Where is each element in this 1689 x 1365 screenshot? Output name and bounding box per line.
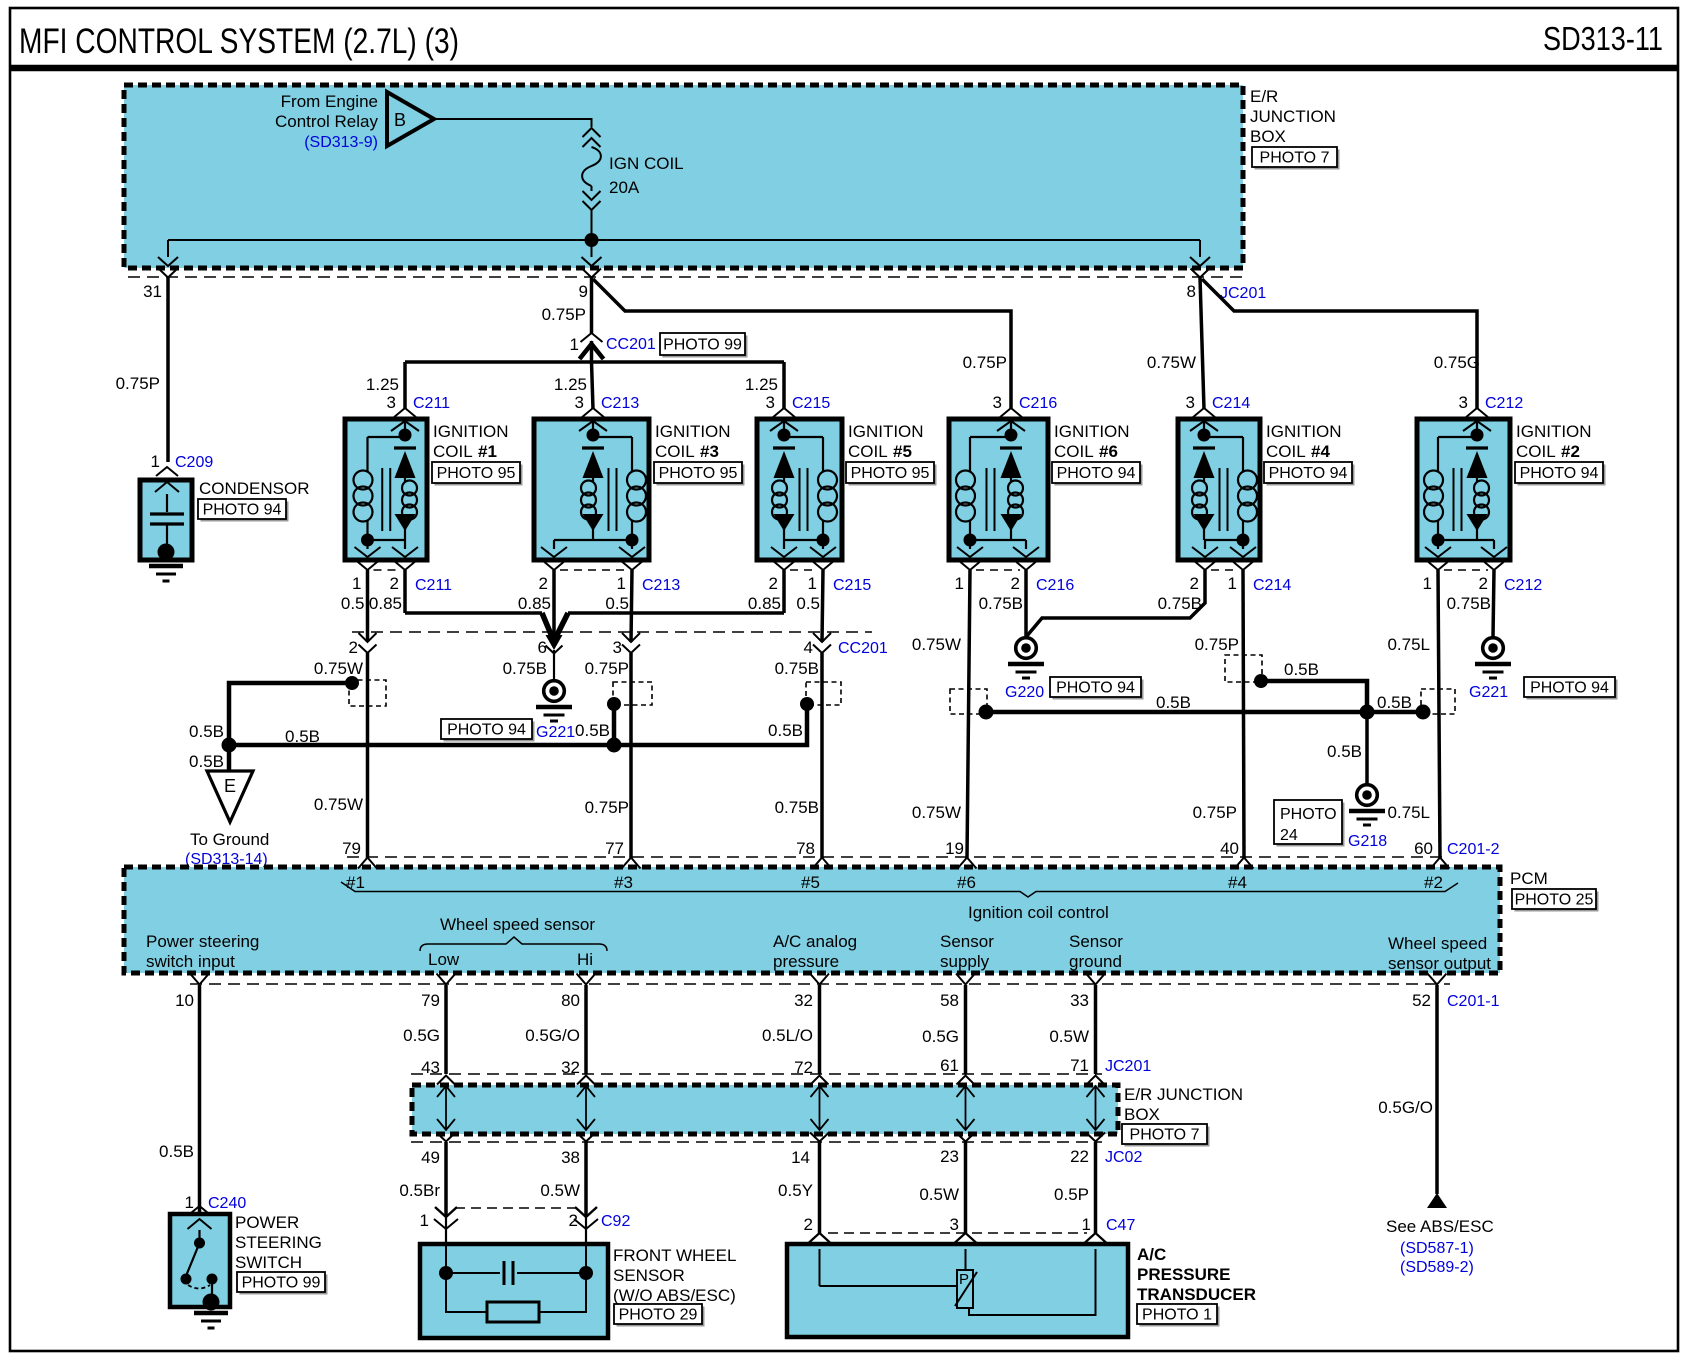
svg-text:STEERING: STEERING — [235, 1233, 322, 1252]
svg-text:PHOTO 99: PHOTO 99 — [242, 1275, 321, 1292]
switch internals — [181, 1219, 220, 1311]
svg-text:C47: C47 — [1106, 1217, 1135, 1234]
ignition coil #4 (C214) — [1158, 393, 1292, 613]
svg-text:Wheel speed sensor: Wheel speed sensor — [440, 915, 595, 934]
junction dot on bus — [607, 738, 622, 753]
svg-text:0.85: 0.85 — [369, 594, 402, 613]
sensor supply label — [940, 932, 994, 971]
svg-text:0.75B: 0.75B — [1158, 594, 1202, 613]
svg-text:20A: 20A — [609, 178, 640, 197]
ground symbol E (to ground SD313-14) — [207, 771, 253, 822]
pass-through arrows in box — [437, 1086, 1105, 1130]
svg-text:0.5L/O: 0.5L/O — [762, 1026, 813, 1045]
svg-text:0.75G: 0.75G — [1434, 353, 1480, 372]
svg-text:#1: #1 — [346, 873, 365, 892]
svg-text:C212: C212 — [1504, 577, 1542, 594]
svg-text:1: 1 — [955, 574, 964, 593]
svg-text:22: 22 — [1070, 1147, 1089, 1166]
svg-text:0.85: 0.85 — [748, 594, 781, 613]
svg-text:C216: C216 — [1019, 395, 1057, 412]
svg-text:2: 2 — [569, 1211, 578, 1230]
cylinder labels — [346, 873, 1443, 892]
svg-text:3: 3 — [387, 393, 396, 412]
wire 0.5P to C47-1 — [1054, 1142, 1095, 1233]
svg-text:C92: C92 — [601, 1213, 630, 1230]
svg-text:(SD313-9): (SD313-9) — [304, 134, 378, 151]
connector row JC02 — [411, 1141, 1102, 1143]
svg-text:#6: #6 — [1099, 442, 1118, 461]
svg-text:4: 4 — [804, 638, 813, 657]
svg-text:C213: C213 — [642, 577, 680, 594]
svg-text:PCM: PCM — [1510, 869, 1548, 888]
transducer internals — [820, 1249, 1096, 1315]
svg-text:PHOTO 94: PHOTO 94 — [1056, 680, 1135, 697]
svg-text:1: 1 — [185, 1193, 194, 1212]
wire 0.75P to PCM 77 — [585, 653, 631, 858]
svg-text:COIL: COIL — [433, 442, 473, 461]
PCM pins top chevrons — [358, 858, 1450, 869]
svg-text:PHOTO 95: PHOTO 95 — [659, 465, 738, 482]
svg-text:71: 71 — [1070, 1056, 1089, 1075]
svg-text:0.75W: 0.75W — [1147, 353, 1196, 372]
pin 8 JC201 — [1187, 257, 1210, 301]
PCM box — [124, 867, 1500, 973]
svg-text:0.5W: 0.5W — [1049, 1027, 1089, 1046]
E/R junction box row2 labels — [1124, 1085, 1243, 1124]
svg-text:3: 3 — [613, 638, 622, 657]
transducer labels — [1137, 1245, 1256, 1304]
wire 0.75L C212-1 to PCM 60 — [1387, 570, 1440, 858]
svg-text:2: 2 — [539, 574, 548, 593]
svg-text:CC201: CC201 — [606, 336, 656, 353]
E/R junction box label — [1250, 87, 1336, 146]
svg-text:0.75P: 0.75P — [542, 305, 586, 324]
connector row C201-1 (PCM bottom) — [190, 983, 1450, 985]
off-page arrow to ABS/ESC — [1427, 1193, 1447, 1208]
svg-text:PHOTO 94: PHOTO 94 — [1057, 465, 1136, 482]
svg-text:0.75W: 0.75W — [912, 803, 961, 822]
bus wire in junction box — [168, 239, 1200, 241]
wire 0.5G pin58 — [922, 985, 965, 1075]
photo 24 box — [1277, 803, 1345, 847]
svg-text:0.75B: 0.75B — [979, 594, 1023, 613]
ignition coil control brace — [341, 882, 1458, 897]
svg-text:From Engine: From Engine — [281, 92, 378, 111]
pin 31 JC201 — [143, 257, 178, 301]
photo 1 box (transducer) — [1140, 1307, 1220, 1327]
front wheel sensor box — [420, 1244, 608, 1338]
svg-text:G221: G221 — [536, 724, 575, 741]
svg-text:G220: G220 — [1005, 684, 1044, 701]
wire 0.5W to C47-3 — [919, 1142, 965, 1233]
svg-text:switch input: switch input — [146, 952, 235, 971]
svg-text:61: 61 — [940, 1056, 959, 1075]
svg-text:0.75L: 0.75L — [1387, 635, 1430, 654]
joint connector on 0.75P wire — [613, 682, 652, 705]
svg-text:78: 78 — [796, 839, 815, 858]
svg-text:Wheel speed: Wheel speed — [1388, 934, 1487, 953]
ignition coil #2 (C212) — [1417, 393, 1542, 613]
wire 0.85 C213-2 to bus — [552, 570, 556, 640]
svg-text:(SD587-1): (SD587-1) — [1400, 1240, 1474, 1257]
svg-text:Sensor: Sensor — [940, 932, 994, 951]
svg-text:1: 1 — [1082, 1215, 1091, 1234]
joint connector on 0.75W (right) — [950, 689, 987, 714]
svg-text:0.5G/O: 0.5G/O — [1378, 1098, 1433, 1117]
photo 25 box — [1515, 892, 1599, 912]
connector row CC201 — [352, 631, 872, 633]
joint connector on 0.75P (right) — [1225, 655, 1262, 682]
svg-text:8: 8 — [1187, 282, 1196, 301]
svg-text:C216: C216 — [1036, 577, 1074, 594]
svg-text:0.5G: 0.5G — [922, 1027, 959, 1046]
svg-text:PHOTO 94: PHOTO 94 — [1520, 465, 1599, 482]
svg-text:SWITCH: SWITCH — [235, 1253, 302, 1272]
svg-text:BOX: BOX — [1250, 127, 1286, 146]
connector C240 — [185, 1193, 247, 1215]
svg-text:2: 2 — [390, 574, 399, 593]
photo 7 box (top) — [1255, 150, 1340, 170]
svg-text:#4: #4 — [1311, 442, 1330, 461]
wire 0.5W pin33 — [1049, 985, 1095, 1075]
svg-text:Hi: Hi — [577, 950, 593, 969]
svg-text:0.5W: 0.5W — [919, 1185, 959, 1204]
wire 0.75B C214-2 to G220 — [1026, 570, 1205, 637]
sensor internals — [439, 1244, 593, 1322]
label from engine control relay — [275, 92, 378, 151]
svg-text:PRESSURE: PRESSURE — [1137, 1265, 1231, 1284]
svg-text:80: 80 — [561, 991, 580, 1010]
wire 0.75B C216-2 to G220 — [1024, 570, 1028, 637]
svg-text:IGNITION: IGNITION — [1266, 422, 1342, 441]
svg-text:0.5B: 0.5B — [1284, 660, 1319, 679]
photo 7 box (row2) — [1125, 1127, 1210, 1147]
wire 0.75P pin 9 to CC201 — [542, 278, 592, 334]
photo 94 box (coil 2) — [1518, 465, 1606, 486]
splice dot 0.75W joint — [345, 676, 359, 690]
A/C analog pressure label — [773, 932, 857, 971]
svg-text:3: 3 — [1186, 393, 1195, 412]
svg-text:Ignition coil control: Ignition coil control — [968, 903, 1109, 922]
splice dot 0.75B joint — [800, 697, 814, 711]
branch pin 8 to coil #2 (0.75G) — [1202, 279, 1480, 409]
svg-text:PHOTO: PHOTO — [1280, 806, 1337, 823]
joint connector on 0.75W wire — [349, 680, 386, 706]
0.5B branch wire — [1261, 660, 1367, 712]
svg-text:38: 38 — [561, 1148, 580, 1167]
svg-text:1: 1 — [352, 574, 361, 593]
svg-text:#4: #4 — [1228, 873, 1247, 892]
photo 94 box (G220) — [1053, 680, 1144, 700]
svg-text:2: 2 — [349, 638, 358, 657]
title bar rule — [10, 65, 1678, 72]
wire 0.5L/O pin32 — [762, 985, 820, 1077]
svg-text:Control Relay: Control Relay — [275, 112, 378, 131]
svg-text:C212: C212 — [1485, 395, 1523, 412]
svg-text:0.75P: 0.75P — [585, 798, 629, 817]
photo 29 box (sensor) — [617, 1307, 705, 1327]
svg-text:0.5: 0.5 — [341, 594, 365, 613]
svg-text:supply: supply — [940, 952, 990, 971]
svg-text:3: 3 — [1459, 393, 1468, 412]
svg-text:C214: C214 — [1212, 395, 1250, 412]
svg-text:B: B — [394, 110, 406, 130]
svg-text:JC201: JC201 — [1105, 1058, 1151, 1075]
svg-text:0.75W: 0.75W — [314, 659, 363, 678]
svg-text:C209: C209 — [175, 454, 213, 471]
svg-text:0.5G/O: 0.5G/O — [525, 1026, 580, 1045]
E/R junction box (row2) — [412, 1085, 1118, 1134]
stub to joint on 0.75P wire — [612, 706, 617, 745]
svg-text:40: 40 — [1220, 839, 1239, 858]
svg-text:COIL: COIL — [848, 442, 888, 461]
svg-text:1: 1 — [420, 1211, 429, 1230]
svg-text:0.5B: 0.5B — [768, 721, 803, 740]
wire bus to pin 8 — [1199, 240, 1201, 257]
svg-text:IGNITION: IGNITION — [433, 422, 509, 441]
svg-text:0.75P: 0.75P — [963, 353, 1007, 372]
wire B to fuse — [434, 119, 592, 127]
svg-text:0.5B: 0.5B — [189, 722, 224, 741]
ignition coil #3 (C213) — [518, 393, 680, 613]
photo 94 box (coil 6) — [1055, 465, 1143, 486]
front wheel sensor labels — [613, 1246, 736, 1305]
svg-text:sensor output: sensor output — [1388, 954, 1491, 973]
svg-text:0.75W: 0.75W — [314, 795, 363, 814]
joint connector on 0.75L (right) — [1421, 689, 1455, 714]
wire 0.5 C213-1 to CC201-3 — [631, 570, 632, 642]
svg-text:A/C: A/C — [1137, 1245, 1166, 1264]
wire 0.5Y to C47-2 — [778, 1142, 819, 1233]
svg-text:0.5P: 0.5P — [1054, 1185, 1089, 1204]
svg-text:C215: C215 — [833, 577, 871, 594]
svg-text:52: 52 — [1412, 991, 1431, 1010]
svg-text:FRONT WHEEL: FRONT WHEEL — [613, 1246, 736, 1265]
svg-text:C211: C211 — [413, 395, 450, 412]
ground G218 — [1357, 785, 1378, 806]
svg-text:0.75P: 0.75P — [1195, 635, 1239, 654]
svg-text:JC02: JC02 — [1105, 1149, 1142, 1166]
svg-text:0.75B: 0.75B — [775, 659, 819, 678]
svg-text:PHOTO 95: PHOTO 95 — [437, 465, 516, 482]
svg-text:2: 2 — [769, 574, 778, 593]
svg-text:IGNITION: IGNITION — [848, 422, 924, 441]
svg-text:0.5B: 0.5B — [159, 1142, 194, 1161]
svg-text:E: E — [224, 776, 236, 796]
svg-text:3: 3 — [575, 393, 584, 412]
svg-text:58: 58 — [940, 991, 959, 1010]
svg-text:#3: #3 — [614, 873, 633, 892]
svg-text:C201-1: C201-1 — [1447, 993, 1500, 1010]
ground G221 (right) — [1483, 638, 1504, 659]
svg-text:0.75B: 0.75B — [503, 659, 547, 678]
svg-text:PHOTO 1: PHOTO 1 — [1142, 1307, 1212, 1324]
0.5B bus to joints — [229, 706, 807, 746]
wire 0.75P pin 31 to condensor — [116, 278, 168, 463]
sensor ground label — [1069, 932, 1123, 971]
svg-text:C211: C211 — [415, 577, 452, 594]
wire 0.5W to C92-2 — [540, 1142, 586, 1217]
wire 0.5 C211-1 to CC201-2 — [366, 570, 370, 642]
wire 0.75W pin 8 to coil #4 — [1147, 278, 1204, 410]
PCM bottom pin numbers — [175, 991, 1431, 1010]
svg-text:3: 3 — [993, 393, 1002, 412]
svg-text:33: 33 — [1070, 991, 1089, 1010]
svg-text:POWER: POWER — [235, 1213, 299, 1232]
svg-text:E/R JUNCTION: E/R JUNCTION — [1124, 1085, 1243, 1104]
svg-text:49: 49 — [421, 1148, 440, 1167]
svg-text:0.5B: 0.5B — [1377, 693, 1412, 712]
ignition coil #1 (C211) — [341, 393, 452, 613]
wire 0.5G/O pin80 — [525, 985, 586, 1077]
svg-text:(SD589-2): (SD589-2) — [1400, 1259, 1474, 1276]
svg-text:0.75P: 0.75P — [585, 659, 629, 678]
power steering switch labels — [235, 1213, 322, 1272]
junction dot at fuse/bus — [585, 233, 599, 247]
wire 0.5 C215-1 to CC201-4 — [822, 570, 823, 642]
wheel speed sensor output label — [1388, 934, 1491, 973]
svg-text:E/R: E/R — [1250, 87, 1278, 106]
photo 94 box (condensor) — [201, 502, 289, 522]
wire 0.75W C216-1 to PCM 19 — [912, 570, 970, 858]
bus to coils 1-3-5 (1.25) — [366, 362, 784, 409]
svg-text:24: 24 — [1280, 827, 1298, 844]
svg-text:JC201: JC201 — [1220, 285, 1266, 302]
connector row C201-2 (PCM top) — [347, 856, 1445, 858]
photo 95 box (coil 3) — [657, 465, 745, 486]
ignition coil #4 labels — [1266, 422, 1342, 461]
svg-text:32: 32 — [794, 991, 813, 1010]
svg-text:To Ground: To Ground — [190, 830, 269, 849]
svg-text:31: 31 — [143, 282, 162, 301]
svg-text:See ABS/ESC: See ABS/ESC — [1386, 1217, 1494, 1236]
ground G220 — [1016, 638, 1037, 659]
svg-text:3: 3 — [766, 393, 775, 412]
photo 94 box (G221 center) — [444, 722, 535, 742]
connector row JC201 (top) — [128, 276, 1243, 278]
svg-text:77: 77 — [605, 839, 624, 858]
svg-text:COIL: COIL — [1266, 442, 1306, 461]
ignition coil #1 labels — [433, 422, 509, 461]
0.85 merge bus — [405, 611, 542, 615]
joint connector on 0.75B wire — [806, 682, 841, 705]
svg-text:0.5B: 0.5B — [1327, 742, 1362, 761]
svg-text:MFI CONTROL SYSTEM (2.7L) (3): MFI CONTROL SYSTEM (2.7L) (3) — [19, 22, 459, 61]
ignition coil #5 (C215) — [748, 393, 871, 613]
svg-text:PHOTO 94: PHOTO 94 — [1269, 465, 1348, 482]
svg-text:1: 1 — [1228, 574, 1237, 593]
svg-text:0.75P: 0.75P — [116, 374, 160, 393]
svg-text:#3: #3 — [700, 442, 719, 461]
svg-text:0.5: 0.5 — [796, 594, 820, 613]
svg-text:0.5: 0.5 — [605, 594, 629, 613]
ground G221 (center) — [544, 681, 565, 702]
CC201 pin 4 — [804, 633, 831, 657]
wire 0.75B to PCM 78 — [775, 653, 822, 858]
svg-text:PHOTO 94: PHOTO 94 — [203, 502, 282, 519]
svg-text:C214: C214 — [1253, 577, 1291, 594]
svg-text:1.25: 1.25 — [554, 375, 587, 394]
photo 94 box (coil 4) — [1267, 465, 1355, 486]
svg-text:IGNITION: IGNITION — [1054, 422, 1130, 441]
svg-text:JUNCTION: JUNCTION — [1250, 107, 1336, 126]
svg-text:0.5Y: 0.5Y — [778, 1181, 813, 1200]
svg-text:COIL: COIL — [1516, 442, 1556, 461]
svg-text:0.5B: 0.5B — [575, 721, 610, 740]
svg-text:C240: C240 — [208, 1195, 246, 1212]
photo 95 box (coil 5) — [849, 465, 937, 486]
svg-text:G221: G221 — [1469, 684, 1508, 701]
wire 0.75B C212-2 to G221 — [1493, 570, 1494, 637]
svg-text:PHOTO 99: PHOTO 99 — [663, 337, 742, 354]
svg-text:#2: #2 — [1424, 873, 1443, 892]
photo 94 box (G221 right) — [1527, 680, 1618, 700]
branch pin 9 to coil #6 (0.75P) — [593, 279, 1011, 409]
connector CC201 pin 1 — [570, 333, 656, 362]
svg-text:IGNITION: IGNITION — [655, 422, 731, 441]
to ground label — [185, 830, 269, 868]
bus end dot — [1416, 705, 1431, 720]
svg-text:PHOTO 25: PHOTO 25 — [1515, 892, 1594, 909]
svg-text:0.75B: 0.75B — [1447, 594, 1491, 613]
junction dot G218 branch — [1360, 705, 1375, 720]
wire bus to pin 31 — [167, 240, 169, 257]
ignition coil #3 labels — [655, 422, 731, 461]
ground under switch — [194, 1311, 228, 1316]
svg-text:Low: Low — [428, 950, 460, 969]
ignition coil #2 labels — [1516, 422, 1592, 461]
ignition coil #5 labels — [848, 422, 924, 461]
svg-text:6: 6 — [538, 638, 547, 657]
svg-text:1.25: 1.25 — [366, 375, 399, 394]
svg-text:0.75W: 0.75W — [912, 635, 961, 654]
svg-text:C213: C213 — [601, 395, 639, 412]
svg-text:IGNITION: IGNITION — [1516, 422, 1592, 441]
svg-text:C215: C215 — [792, 395, 830, 412]
photo 99 box — [663, 336, 748, 358]
svg-text:1: 1 — [151, 452, 160, 471]
svg-text:#6: #6 — [957, 873, 976, 892]
wire 0.5B E-branch — [189, 683, 352, 745]
svg-text:IGN COIL: IGN COIL — [609, 154, 684, 173]
svg-text:2: 2 — [1190, 574, 1199, 593]
wire 0.5G/O pin52 to ABS — [1378, 985, 1437, 1194]
svg-text:0.5B: 0.5B — [285, 727, 320, 746]
svg-text:PHOTO 94: PHOTO 94 — [447, 722, 526, 739]
pin 9 JC201 — [579, 257, 602, 301]
svg-text:9: 9 — [579, 282, 588, 301]
svg-text:60: 60 — [1414, 839, 1433, 858]
wire 0.75P C214-1 to PCM 40 — [1193, 570, 1244, 858]
connector C92 — [420, 1207, 631, 1244]
JC02 pin numbers — [421, 1147, 1089, 1167]
photo 95 box (coil 1) — [435, 465, 523, 486]
svg-text:PHOTO 7: PHOTO 7 — [1130, 1127, 1200, 1144]
svg-text:SENSOR: SENSOR — [613, 1266, 685, 1285]
svg-text:0.5B: 0.5B — [1156, 693, 1191, 712]
svg-text:1: 1 — [617, 574, 626, 593]
fuse IGN COIL 20A — [582, 128, 684, 240]
PCM pins bottom chevrons — [190, 974, 1447, 985]
svg-text:10: 10 — [175, 991, 194, 1010]
svg-text:PHOTO 95: PHOTO 95 — [851, 465, 930, 482]
svg-text:2: 2 — [1011, 574, 1020, 593]
svg-text:CC201: CC201 — [838, 640, 888, 657]
svg-text:0.5B: 0.5B — [189, 752, 224, 771]
power steering switch input label — [146, 932, 259, 971]
E/R junction box (top) — [124, 85, 1243, 268]
svg-text:Sensor: Sensor — [1069, 932, 1123, 951]
